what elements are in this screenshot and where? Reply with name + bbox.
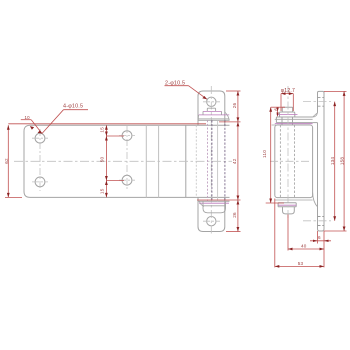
svg-text:53: 53 [298, 261, 304, 266]
svg-text:10: 10 [25, 115, 31, 120]
svg-text:40: 40 [301, 243, 307, 248]
svg-text:110: 110 [262, 150, 267, 158]
svg-text:4-φ10.5: 4-φ10.5 [63, 104, 83, 110]
svg-text:42: 42 [232, 158, 237, 164]
svg-text:φ12.7: φ12.7 [281, 88, 295, 94]
svg-text:6: 6 [273, 108, 278, 111]
svg-text:26: 26 [232, 103, 237, 109]
svg-text:2-φ10.5: 2-φ10.5 [165, 81, 185, 87]
svg-text:134: 134 [330, 157, 335, 166]
svg-text:158: 158 [340, 157, 345, 166]
svg-text:62: 62 [4, 158, 9, 164]
svg-text:6: 6 [318, 235, 321, 240]
svg-text:15: 15 [100, 127, 105, 133]
svg-text:50: 50 [100, 157, 105, 163]
svg-text:26: 26 [232, 212, 237, 218]
svg-text:15: 15 [100, 188, 105, 194]
